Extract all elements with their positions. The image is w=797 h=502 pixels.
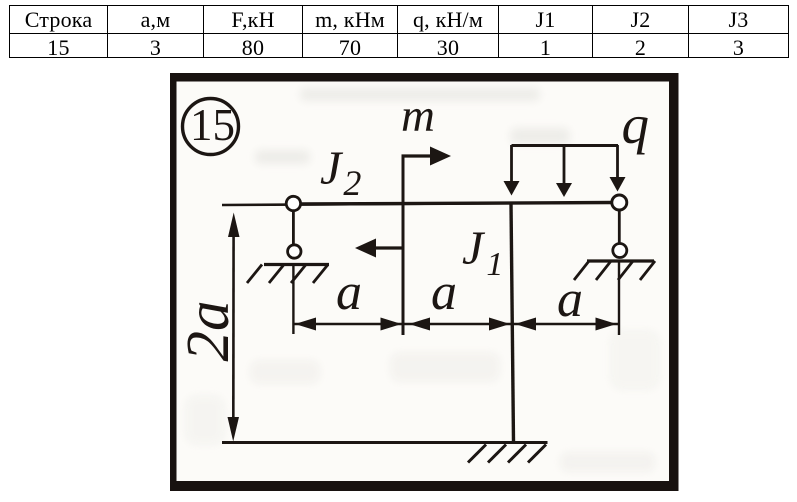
left support hatching <box>247 265 328 284</box>
right support hatch line <box>587 259 654 262</box>
left hinge upper circle <box>286 196 300 210</box>
right support link <box>618 210 621 244</box>
scan background tint <box>176 81 670 482</box>
distributed load q top line <box>512 144 619 147</box>
left support lower circle <box>288 245 301 258</box>
right support hatching <box>574 261 655 280</box>
q right arrow <box>616 145 619 178</box>
right witness line below support <box>618 262 620 335</box>
dim arrowheads <box>295 318 617 331</box>
scan smudges <box>185 88 660 472</box>
moment m upper arrow (right) <box>402 154 433 157</box>
moment m stem <box>402 155 405 336</box>
data table <box>9 5 789 58</box>
fixed support hatching bottom <box>468 445 546 463</box>
q left arrow <box>510 145 513 182</box>
left witness line below support <box>292 266 294 334</box>
svg-text:q: q <box>622 94 650 155</box>
scanned figure frame box <box>170 73 679 491</box>
horizontal dimension line a-a-a <box>293 323 618 325</box>
ground line at bottom <box>222 441 548 444</box>
right support lower circle <box>613 244 627 258</box>
svg-text:a: a <box>431 264 457 321</box>
beam horizontal member (top chord) <box>222 203 619 206</box>
vertical dimension line 2a <box>232 225 235 430</box>
svg-text:a: a <box>557 271 583 328</box>
column member J1 vertical <box>511 203 514 442</box>
svg-text:m: m <box>401 90 435 142</box>
left support link <box>292 211 295 245</box>
moment m lower arrow (left) <box>374 246 404 249</box>
left support hatch line <box>264 263 329 266</box>
q middle arrow <box>563 145 566 184</box>
svg-text:15: 15 <box>190 100 235 150</box>
svg-text:a: a <box>336 264 362 321</box>
svg-text:2a: 2a <box>175 301 242 362</box>
variant number circle (15) <box>183 99 239 155</box>
right hinge upper circle <box>612 195 627 210</box>
